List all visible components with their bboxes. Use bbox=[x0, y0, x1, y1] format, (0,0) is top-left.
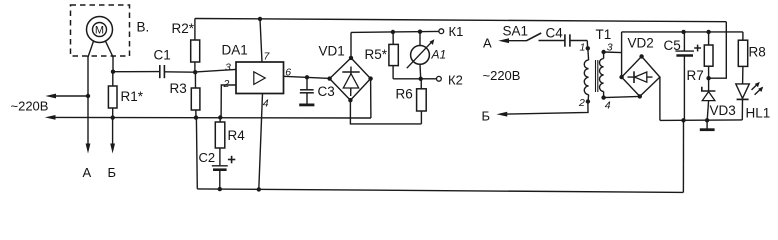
svg-text:4: 4 bbox=[605, 99, 611, 111]
svg-text:А1: А1 bbox=[431, 48, 447, 62]
switch SA1 bbox=[503, 24, 542, 41]
diode bridge VD1 bbox=[319, 44, 373, 103]
LED HL1 bbox=[736, 82, 770, 120]
wire pin 6 bbox=[284, 76, 331, 78]
svg-text:R5*: R5* bbox=[365, 47, 388, 62]
ground symbol bbox=[700, 120, 715, 129]
svg-text:~220В: ~220В bbox=[11, 99, 49, 114]
wire top rail drop to R7 bottom bbox=[709, 22, 727, 78]
svg-text:R6: R6 bbox=[396, 87, 413, 102]
node R5 top bbox=[391, 30, 395, 34]
svg-text:R1*: R1* bbox=[121, 89, 144, 104]
terminal K1 bbox=[439, 24, 463, 39]
resistor R1* bbox=[108, 72, 143, 118]
transformer T1 bbox=[578, 27, 613, 111]
wire bottom rail bbox=[197, 189, 683, 193]
op-amp DA1 bbox=[222, 43, 284, 94]
svg-text:В.: В. bbox=[137, 20, 150, 35]
svg-text:6: 6 bbox=[285, 67, 291, 79]
wire VD2 right vertex drop bbox=[659, 77, 661, 120]
node C5 top bbox=[681, 30, 685, 34]
svg-text:R2*: R2* bbox=[172, 21, 195, 36]
wire T1 pin3 to VD2 bbox=[604, 51, 622, 54]
node R3 bottom bbox=[194, 115, 198, 119]
node pin4 bottom bbox=[257, 187, 261, 191]
node R4 top bbox=[218, 115, 222, 119]
wire meter rail bbox=[351, 31, 439, 32]
svg-text:DA1: DA1 bbox=[222, 43, 248, 58]
wire VD1 top to meter rail bbox=[350, 32, 352, 58]
node R1 bottom bbox=[111, 115, 115, 119]
node A1 top bbox=[418, 30, 422, 34]
resistor R7 bbox=[687, 32, 714, 83]
svg-text:3: 3 bbox=[225, 61, 231, 73]
wire lower ~220V rail bbox=[45, 115, 371, 120]
wire T1 pin4 to VD2 bottom bbox=[604, 96, 640, 97]
node C3 tap bbox=[305, 75, 309, 79]
wire C4 to T1 pin1 bbox=[586, 41, 588, 49]
wire A vertical bbox=[87, 56, 89, 149]
node VD3 bottom bbox=[705, 118, 709, 122]
wire pin 2 bbox=[221, 85, 236, 117]
node R7 top bbox=[706, 30, 710, 34]
wire right bottom bus bbox=[660, 119, 742, 122]
node upper mains tap bbox=[86, 94, 90, 98]
resistor R5* bbox=[365, 32, 421, 79]
svg-text:T1: T1 bbox=[596, 27, 612, 42]
wire pin 3 bbox=[196, 69, 236, 72]
svg-text:~220В: ~220В bbox=[483, 68, 521, 83]
svg-text:R8: R8 bbox=[749, 45, 766, 60]
svg-text:R4: R4 bbox=[228, 128, 246, 143]
diode bridge VD2 bbox=[619, 36, 660, 99]
svg-text:4: 4 bbox=[263, 97, 269, 109]
node C5 bottom / rail drop bbox=[681, 118, 685, 122]
svg-text:К2: К2 bbox=[448, 73, 463, 88]
svg-text:М: М bbox=[95, 25, 104, 37]
svg-text:А: А bbox=[83, 165, 92, 180]
capacitor C1 bbox=[113, 48, 195, 79]
motor M symbol bbox=[87, 17, 114, 58]
wire A arrow right bbox=[498, 38, 527, 43]
svg-text:C4: C4 bbox=[546, 26, 564, 41]
wire top rail bbox=[195, 19, 726, 22]
svg-text:Б: Б bbox=[482, 109, 491, 124]
svg-text:SA1: SA1 bbox=[503, 24, 529, 39]
resistor R8 bbox=[738, 32, 765, 84]
svg-text:1: 1 bbox=[580, 42, 586, 54]
wire pin 4 bbox=[259, 94, 263, 190]
wire VD1 minus link bbox=[350, 100, 421, 124]
svg-text:VD1: VD1 bbox=[319, 44, 345, 59]
svg-text:C2: C2 bbox=[199, 150, 216, 165]
wire VD2 left vertex riser bbox=[621, 32, 623, 77]
wire bottom rail left drop bbox=[195, 118, 198, 189]
svg-text:К1: К1 bbox=[449, 24, 464, 39]
resistor R2* bbox=[172, 19, 200, 73]
svg-text:Б: Б bbox=[108, 165, 117, 180]
wire B arrow right bbox=[482, 102, 589, 124]
zener diode VD3 bbox=[702, 78, 736, 120]
capacitor C2 polarized bbox=[199, 148, 236, 189]
svg-text:C3: C3 bbox=[318, 84, 335, 99]
meter A1 bbox=[407, 32, 446, 79]
svg-text:2: 2 bbox=[223, 78, 230, 90]
capacitor C3 bbox=[300, 77, 335, 103]
svg-text:VD3: VD3 bbox=[710, 103, 736, 118]
svg-text:VD2: VD2 bbox=[628, 36, 654, 51]
wire VD1 right vertex to mains rail bbox=[370, 79, 372, 118]
resistor R6 bbox=[396, 79, 427, 124]
wire upper ~220V arrow bbox=[45, 94, 88, 99]
svg-text:C5: C5 bbox=[664, 38, 681, 53]
svg-text:2: 2 bbox=[578, 97, 585, 109]
resistor R3 bbox=[170, 72, 200, 117]
fan motor B dashed enclosure bbox=[71, 5, 130, 56]
node T1 pin1 bbox=[586, 46, 590, 50]
terminal K2 bbox=[421, 73, 463, 88]
wire pin 7 bbox=[260, 19, 262, 62]
arrow A down bbox=[86, 144, 91, 154]
ground bar under C3 bbox=[299, 104, 314, 107]
wire plus rail right bbox=[622, 31, 743, 33]
node R7 bottom / VD3 top bbox=[706, 76, 710, 80]
svg-text:C1: C1 bbox=[154, 48, 171, 63]
capacitor C4 bbox=[539, 26, 588, 47]
svg-text:R3: R3 bbox=[170, 81, 187, 96]
wire B down arrow bbox=[110, 118, 115, 154]
node motor/C1/R1 bbox=[111, 70, 115, 74]
node pin7 on top rail bbox=[258, 17, 262, 21]
node K2 tap bbox=[419, 77, 423, 81]
capacitor C5 polarized bbox=[664, 32, 702, 120]
node C2 bottom bbox=[218, 187, 222, 191]
wire motor right leg bbox=[112, 56, 114, 72]
svg-text:А: А bbox=[483, 35, 492, 50]
svg-text:R7: R7 bbox=[687, 68, 704, 83]
wire drop to main bottom rail bbox=[682, 120, 684, 192]
svg-text:HL1: HL1 bbox=[746, 105, 771, 120]
node R2/R3/pin3 bbox=[193, 70, 197, 74]
resistor R4 bbox=[215, 118, 245, 149]
